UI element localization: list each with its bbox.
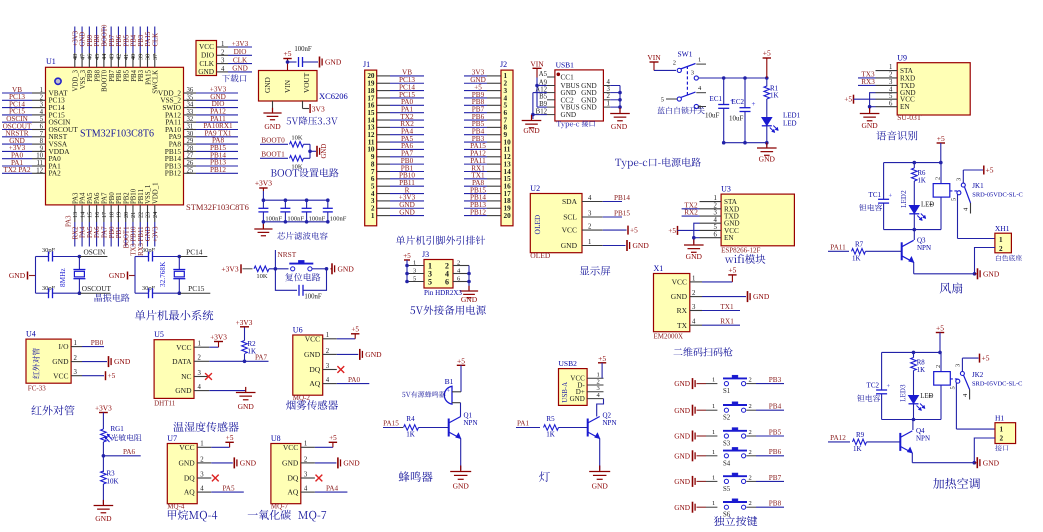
svg-text:SDA: SDA (562, 197, 578, 206)
svg-text:2: 2 (935, 177, 942, 180)
wire VIN to VBUS pins (536, 78, 538, 108)
U1 left pin 9 VDDA net +3V3 (2, 150, 32, 152)
svg-text:RX3: RX3 (861, 78, 875, 86)
svg-text:+3V3: +3V3 (72, 30, 79, 46)
svg-text:4: 4 (692, 319, 696, 326)
svg-text:GND: GND (52, 357, 69, 366)
svg-text:+5: +5 (630, 226, 638, 235)
svg-text:12: 12 (36, 167, 43, 174)
svg-text:1: 1 (712, 377, 715, 384)
svg-text:S5: S5 (723, 486, 731, 493)
net PA15 to R4 (383, 427, 400, 429)
svg-text:29: 29 (187, 138, 194, 145)
svg-text:100nF: 100nF (309, 216, 326, 223)
relay JK1 pole pin 5 (957, 191, 961, 195)
ground USB1 left (531, 115, 533, 121)
svg-text:VIN: VIN (530, 60, 544, 69)
net RX1 to X1 TX (702, 324, 740, 326)
U1 bottom pin 19 PB1 net PB1 (117, 205, 119, 222)
svg-text:PB15: PB15 (614, 209, 630, 217)
ground bar U8 (315, 462, 337, 464)
svg-text:4: 4 (198, 384, 202, 391)
capacitor EC1 10uF (723, 78, 725, 105)
svg-text:27: 27 (187, 153, 194, 160)
SW1 pole 1 contacts (677, 68, 681, 72)
svg-text:SRD-05VDC-SL-C: SRD-05VDC-SL-C (972, 192, 1022, 199)
svg-text:100nF: 100nF (304, 294, 322, 301)
svg-text:3: 3 (304, 471, 308, 478)
svg-text:PA15: PA15 (145, 69, 152, 84)
svg-text:R6: R6 (918, 170, 927, 177)
label 甲烷MQ-4 (168, 510, 217, 522)
svg-text:GND: GND (109, 271, 126, 280)
svg-text:PA5: PA5 (87, 226, 94, 238)
svg-text:44: 44 (101, 54, 108, 60)
U1 bottom pin 13 PA3 net RX2 (74, 205, 76, 222)
svg-text:PB3: PB3 (138, 34, 145, 46)
svg-text:NC: NC (181, 372, 191, 381)
U1 bottom pin 15 PA5 net PA5 (88, 205, 90, 222)
U1 top pin 41 PB5 net PB5 (125, 27, 127, 54)
svg-text:+3V3: +3V3 (232, 40, 249, 48)
svg-text:35: 35 (187, 94, 194, 101)
relay JK2 contacts (950, 378, 959, 380)
svg-text:8MHz: 8MHz (58, 268, 67, 287)
svg-text:PA7: PA7 (101, 226, 108, 238)
svg-text:4: 4 (714, 217, 718, 224)
svg-text:PA3: PA3 (66, 215, 73, 227)
svg-text:3: 3 (889, 79, 893, 86)
svg-text:GND: GND (238, 402, 255, 411)
resistor 10K BOOT1 (290, 156, 304, 162)
svg-text:1: 1 (1000, 426, 1004, 434)
svg-text:PA3: PA3 (72, 192, 79, 204)
svg-text:17: 17 (101, 212, 108, 218)
svg-text:1: 1 (413, 260, 416, 267)
capacitor 100nF at regulator input (288, 61, 297, 63)
svg-text:PB5: PB5 (123, 69, 130, 81)
svg-text:GND: GND (983, 269, 1000, 278)
gas sensor U7 MQ-4 (167, 444, 197, 504)
svg-text:3: 3 (326, 363, 330, 370)
U1 right pin 33 PA12 net PA12 (184, 114, 197, 116)
svg-text:1K: 1K (770, 92, 779, 100)
svg-text:GND: GND (753, 292, 770, 301)
svg-text:S2: S2 (723, 415, 731, 422)
svg-text:4: 4 (200, 486, 204, 493)
resistor R9 1K (853, 439, 867, 445)
svg-text:5: 5 (661, 97, 664, 104)
U1 left pin 5 OSCIN net OSCIN (2, 121, 32, 123)
svg-text:PB14: PB14 (614, 194, 630, 202)
svg-text:GND: GND (674, 451, 690, 460)
svg-text:1: 1 (40, 87, 43, 94)
svg-text:2: 2 (304, 456, 308, 463)
wire H1 pin2 to ground rail (974, 438, 995, 463)
SW1 pole 2 contacts (677, 97, 681, 101)
svg-text:VCC: VCC (179, 443, 194, 452)
svg-text:10uF: 10uF (729, 115, 744, 123)
svg-text:PB5: PB5 (769, 428, 782, 436)
svg-text:GND: GND (561, 111, 577, 119)
MCU U1 STM32F103C8T6 (46, 67, 184, 205)
U1 right pin 35 VSS_2 net GND (184, 99, 197, 101)
svg-text:100nF: 100nF (287, 216, 304, 223)
svg-text:2: 2 (749, 403, 752, 410)
U1 bottom pin 16 PA6 net PA6 (96, 205, 98, 222)
wire U5 GND to ground (209, 390, 245, 392)
bottom rail typec power (724, 142, 767, 144)
svg-text:+5: +5 (284, 49, 292, 58)
svg-text:A5: A5 (539, 71, 548, 78)
U1 right pin 36 VDD_2 net +3V3 (184, 92, 197, 94)
svg-text:2: 2 (749, 429, 752, 436)
svg-text:PB0: PB0 (109, 226, 116, 238)
label 复位电路 (285, 273, 320, 281)
ground bar U6 (337, 353, 359, 355)
svg-text:X1: X1 (654, 264, 664, 273)
svg-text:1K: 1K (546, 431, 555, 439)
svg-text:21: 21 (130, 212, 137, 218)
svg-text:U7: U7 (167, 434, 177, 443)
relay JK2 coil (940, 352, 942, 371)
svg-text:S4: S4 (723, 460, 731, 467)
LED3 (900, 385, 905, 402)
svg-text:PA15: PA15 (145, 31, 152, 46)
svg-text:Pin HDR2X3: Pin HDR2X3 (424, 289, 462, 297)
net RX2 to U3 TXD (682, 215, 700, 217)
svg-text:13: 13 (72, 212, 79, 218)
net PA1 to R5 (516, 427, 540, 429)
svg-text:TC2: TC2 (867, 382, 880, 390)
svg-text:PA2: PA2 (49, 169, 62, 178)
svg-text:GND: GND (240, 459, 257, 468)
svg-text:R3: R3 (107, 470, 116, 478)
label 单片机引脚外引排针 (396, 236, 485, 245)
svg-text:DHT11: DHT11 (154, 400, 176, 408)
svg-text:VCC: VCC (305, 334, 320, 343)
resistor 10K reset (254, 266, 269, 272)
svg-text:36: 36 (187, 87, 194, 94)
svg-text:1: 1 (714, 195, 717, 202)
svg-text:U2: U2 (530, 184, 540, 193)
svg-text:STM32F103C8T6: STM32F103C8T6 (80, 129, 154, 140)
svg-text:GND: GND (674, 432, 690, 441)
svg-text:OLED: OLED (530, 251, 551, 260)
svg-text:100nF: 100nF (294, 46, 312, 53)
svg-text:2: 2 (999, 245, 1003, 253)
ground buzzer (460, 466, 462, 472)
svg-text:PB0: PB0 (109, 192, 116, 204)
svg-text:+5: +5 (844, 95, 852, 104)
power +5 U6 (337, 338, 355, 340)
svg-text:2: 2 (749, 474, 752, 481)
svg-text:SRD-05VDC-SL-C: SRD-05VDC-SL-C (972, 381, 1022, 388)
header J1 20pin (365, 70, 377, 226)
svg-text:TX1: TX1 (720, 303, 734, 311)
U1 bottom pin 18 PB0 net PB0 (110, 205, 112, 222)
svg-text:TX: TX (677, 321, 688, 330)
svg-text:3: 3 (74, 369, 78, 376)
svg-text:GND: GND (671, 292, 688, 301)
svg-text:PA5: PA5 (222, 485, 235, 493)
svg-text:VCC: VCC (53, 371, 68, 380)
svg-text:PA4: PA4 (326, 485, 339, 493)
resistor R4 1K (400, 427, 403, 429)
ground of regulator (272, 101, 274, 112)
svg-text:CC1: CC1 (561, 74, 575, 82)
U1 top pin 39 PB3 net PB3 (139, 27, 141, 54)
svg-text:20: 20 (504, 212, 512, 220)
svg-text:2: 2 (935, 365, 942, 368)
svg-text:S6: S6 (723, 512, 731, 519)
svg-text:EN: EN (900, 103, 910, 111)
svg-text:+5: +5 (108, 371, 116, 380)
svg-text:5: 5 (428, 277, 432, 286)
svg-text:1: 1 (588, 239, 591, 246)
svg-text:I/O: I/O (59, 342, 70, 351)
svg-text:PA11: PA11 (830, 243, 846, 251)
USB2 USB-A port (559, 369, 588, 406)
QR scanner X1 EM2000X (654, 274, 690, 332)
resistor R6 1K (913, 163, 915, 168)
U1 left pin 4 PC15 net PC15 (2, 114, 32, 116)
net PA0 U6 (337, 383, 370, 385)
svg-text:H1: H1 (995, 413, 1004, 422)
svg-text:2: 2 (692, 290, 696, 297)
USB1 Type-C connector (555, 70, 604, 121)
header J3 HDR2X3 (424, 260, 453, 289)
svg-text:PB0: PB0 (91, 339, 104, 347)
U1 left pin 1 VBAT net VB (2, 92, 32, 94)
svg-text:SCL: SCL (563, 213, 577, 222)
svg-text:2: 2 (198, 355, 202, 362)
U1 top pin 40 PB4 net PB4 (132, 27, 134, 54)
svg-text:PB6: PB6 (116, 34, 123, 46)
label 接口 (995, 445, 1008, 451)
svg-text:U5: U5 (154, 330, 164, 339)
svg-text:MQ-7: MQ-7 (271, 502, 289, 510)
svg-text:8: 8 (40, 138, 44, 145)
ground bar reset (331, 268, 333, 270)
svg-text:31: 31 (187, 124, 194, 131)
download port connector (196, 41, 217, 76)
resistor R3 10K (101, 471, 107, 484)
svg-text:NPN: NPN (916, 435, 930, 443)
svg-text:VOUT: VOUT (302, 72, 311, 93)
U1 top pin 43 PB7 net PB7 (110, 27, 112, 54)
wire USB2 GND to Q2 collector (597, 399, 604, 417)
svg-text:5: 5 (889, 93, 893, 100)
svg-text:GND: GND (592, 482, 609, 491)
wire Q3 emitter to ground rail (913, 262, 915, 274)
svg-text:GND: GND (145, 226, 152, 241)
svg-text:1: 1 (371, 212, 375, 220)
resistor R5 1K (544, 425, 559, 431)
svg-text:PB11: PB11 (138, 189, 145, 204)
gas sensor U6 MQ-2 (293, 335, 323, 395)
svg-text:+: + (889, 193, 893, 200)
ground bar U7 (211, 462, 233, 464)
svg-text:3: 3 (221, 58, 225, 65)
svg-text:PB10: PB10 (131, 188, 138, 204)
U1 right pin 26 PB13 net PB13 (184, 165, 197, 167)
LED1 (762, 118, 772, 126)
svg-text:+3V3: +3V3 (255, 179, 272, 188)
svg-text:6: 6 (714, 231, 718, 238)
svg-text:100nF: 100nF (265, 216, 282, 223)
svg-text:S1: S1 (723, 388, 730, 395)
svg-text:3V3: 3V3 (312, 104, 325, 113)
resistor 10K BOOT0 (290, 142, 304, 148)
svg-text:30: 30 (187, 131, 194, 138)
svg-text:PB6: PB6 (116, 69, 123, 81)
U1 right pin 25 PB12 net PB12 (184, 172, 197, 174)
svg-text:1: 1 (712, 449, 715, 456)
svg-text:23: 23 (145, 212, 152, 218)
svg-text:PB4: PB4 (131, 34, 138, 46)
svg-text:PB1: PB1 (116, 227, 123, 239)
ground typec power (766, 143, 768, 147)
svg-text:3: 3 (198, 370, 202, 377)
label 5V降压3.3V (287, 116, 338, 125)
U1 left pin 7 NRST net NRSTR (2, 136, 32, 138)
label 独立按键 (714, 516, 757, 526)
svg-text:47: 47 (79, 54, 86, 60)
wire XH1 pin2 to ground rail (975, 248, 995, 274)
svg-text:GND: GND (611, 122, 628, 131)
U1 bottom pin 24 VDD_1 net +3V3 (154, 205, 156, 222)
wire U9 GND/EN to ground (870, 93, 876, 107)
net PA11 to R7 (828, 250, 849, 252)
wire A12/B12 GND to ground (533, 92, 547, 94)
svg-text:GND: GND (80, 32, 87, 47)
svg-text:GND: GND (175, 386, 192, 395)
label 语音识别 (876, 131, 917, 141)
svg-text:GND: GND (325, 58, 342, 67)
svg-text:EC2: EC2 (732, 98, 745, 106)
svg-text:1: 1 (999, 236, 1003, 244)
label 二维码扫码枪 (674, 347, 733, 356)
svg-text:2: 2 (457, 260, 460, 267)
ground RG1 divider (102, 500, 104, 506)
svg-text:2: 2 (588, 224, 592, 231)
wire U2 SDA to PB14 (603, 201, 622, 203)
svg-text:9: 9 (40, 145, 44, 152)
power +5 X1 (702, 281, 732, 283)
heater top rail (882, 351, 940, 353)
U1 right pin 30 PA9 net PA9 TX1 (184, 136, 197, 138)
svg-text:PB7: PB7 (769, 474, 782, 482)
svg-text:1: 1 (74, 340, 77, 347)
svg-text:GND: GND (674, 503, 690, 512)
svg-text:1K: 1K (917, 367, 925, 374)
svg-text:R7: R7 (855, 240, 864, 248)
svg-text:U8: U8 (271, 434, 281, 443)
svg-text:6: 6 (445, 277, 449, 286)
U1 top pin 46 PB9 net PB9 (88, 27, 90, 54)
label 灯 (539, 471, 550, 481)
U1 left pin 12 PA2 net TX2 PA2 (2, 172, 32, 174)
svg-text:3: 3 (955, 178, 962, 181)
svg-text:GND: GND (263, 77, 272, 93)
svg-text:RX2: RX2 (72, 226, 79, 239)
U1 right pin 34 SWIO net DIO (184, 107, 197, 109)
ground J3 (468, 286, 470, 291)
svg-text:PB9: PB9 (87, 69, 94, 81)
svg-text:TX3 PB10: TX3 PB10 (131, 226, 138, 256)
svg-text:1: 1 (692, 275, 695, 282)
net TX1 to X1 RX (702, 310, 740, 312)
net TX3 to U9 RXD (858, 77, 876, 79)
label 红外对管 (31, 405, 74, 415)
U1 right pin 31 PA10 net PA10RX1 (184, 129, 197, 131)
svg-text:JK2: JK2 (972, 371, 984, 379)
svg-text:PA6: PA6 (94, 192, 101, 204)
svg-text:3: 3 (714, 210, 718, 217)
svg-text:1: 1 (712, 403, 715, 410)
svg-text:GND: GND (321, 144, 328, 159)
svg-text:34: 34 (187, 102, 194, 109)
relay JK1 coil (940, 163, 942, 184)
SW1 link dashed (686, 66, 688, 96)
svg-text:GND: GND (282, 459, 299, 468)
svg-text:BOOT0: BOOT0 (101, 24, 108, 47)
svg-text:+5: +5 (668, 226, 676, 235)
U1 left pin 8 VSSA net GND (2, 143, 32, 145)
tantalum cap TC1 (883, 163, 885, 200)
svg-text:32: 32 (187, 116, 194, 123)
power +3V3 U5 (209, 346, 218, 348)
svg-text:GND: GND (178, 459, 195, 468)
label 芯片滤波电容 (277, 232, 327, 240)
U1 top pin 45 PB8 net PB8 (96, 27, 98, 54)
svg-text:PB7: PB7 (109, 69, 116, 81)
svg-text:SU-03T: SU-03T (897, 113, 922, 122)
U1 bottom pin 23 VSS_1 net GND (147, 205, 149, 222)
svg-text:AQ: AQ (287, 488, 298, 497)
svg-text:RX2: RX2 (684, 209, 698, 217)
U1 left pin 2 PC13 net PC13 (2, 99, 32, 101)
svg-text:DIO: DIO (234, 48, 247, 56)
svg-text:7: 7 (40, 131, 44, 138)
svg-text:GND: GND (674, 406, 690, 415)
svg-text:48: 48 (72, 54, 79, 60)
resistor R2 1K pullup (244, 354, 246, 361)
svg-text:PB4: PB4 (769, 403, 782, 411)
capacitor EC2 10uF (744, 78, 746, 108)
U1 bottom pin 22 PB11 net RX3 PB11 (139, 205, 141, 222)
svg-text:R9: R9 (856, 431, 865, 439)
wire Q1 emitter to ground (460, 439, 462, 471)
svg-text:GND: GND (581, 104, 597, 112)
svg-text:R5: R5 (546, 415, 555, 423)
ground lamp (599, 466, 601, 472)
svg-text:26: 26 (187, 160, 194, 167)
svg-text:+5: +5 (986, 166, 994, 175)
svg-text:+5: +5 (598, 354, 606, 363)
svg-text:GND: GND (114, 357, 131, 366)
no-connect X U7 DQ (212, 475, 219, 482)
svg-text:PB8: PB8 (94, 34, 101, 46)
svg-text:6: 6 (889, 100, 893, 107)
svg-text:4: 4 (588, 195, 592, 202)
svg-text:ESP8266-12F: ESP8266-12F (721, 247, 760, 255)
ground bar at regulator cap (319, 57, 321, 68)
svg-text:11: 11 (36, 160, 43, 167)
header J2 20pin (501, 70, 513, 226)
svg-text:U3: U3 (721, 185, 731, 194)
